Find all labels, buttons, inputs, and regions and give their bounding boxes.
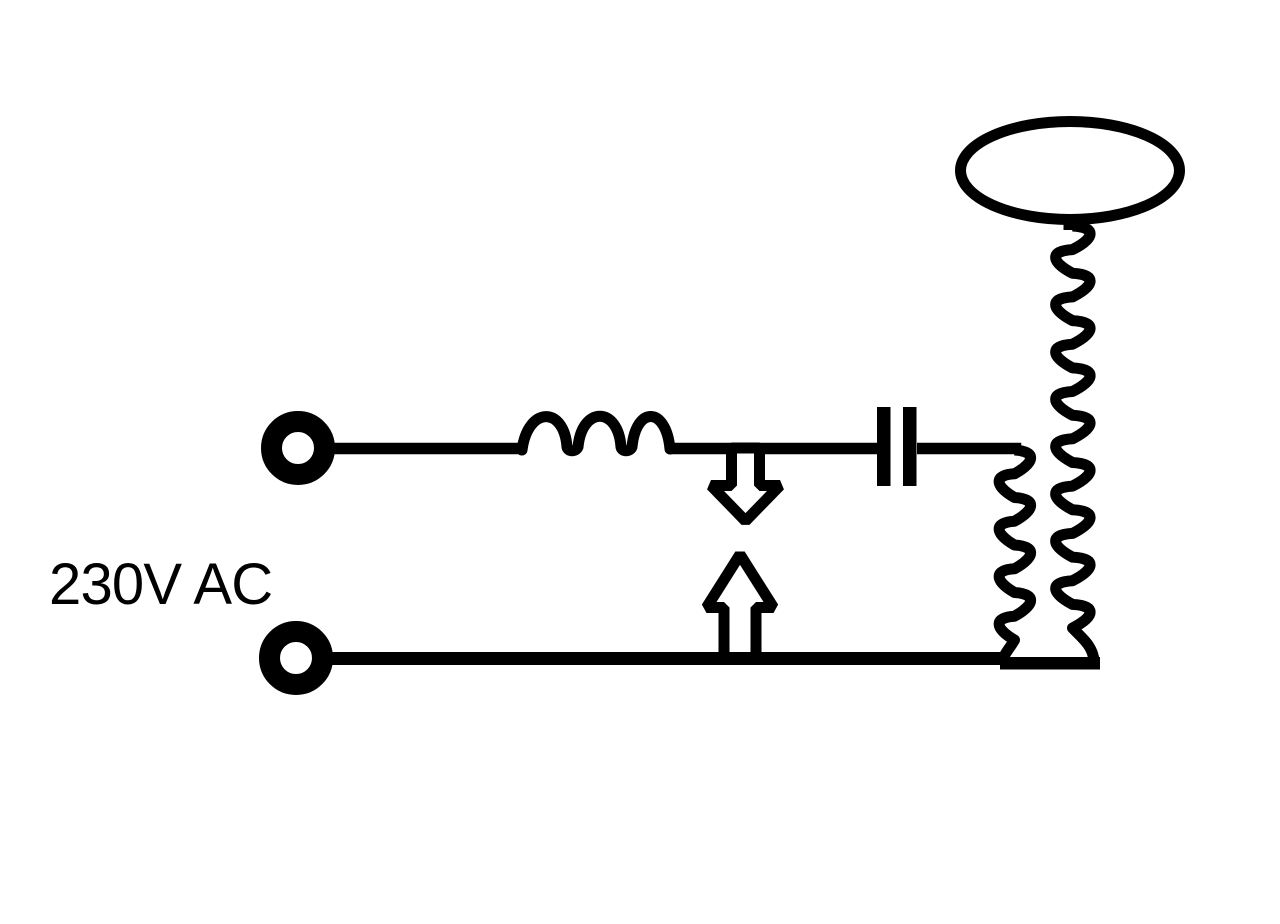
- capacitor C1 right plate: [903, 407, 917, 486]
- wire top from capacitor to primary coil: [917, 449, 1016, 453]
- svg-text:230V AC: 230V AC: [49, 552, 272, 617]
- wire toroid to secondary: [1064, 218, 1075, 230]
- toroid topload: [961, 122, 1180, 220]
- capacitor C1 left plate: [877, 407, 891, 486]
- secondary coil L2: [1056, 226, 1094, 661]
- spark gap down arrow: [711, 448, 780, 521]
- wire bottom thick bar under coils: [1000, 657, 1100, 670]
- resistor R1 (ballast): [522, 416, 670, 451]
- wire top from terminal to resistor: [330, 443, 524, 455]
- terminal top (line input): [272, 422, 325, 475]
- wire bottom: [330, 652, 1005, 665]
- spark gap up arrow: [707, 555, 774, 660]
- primary coil L1: [999, 450, 1031, 661]
- terminal bottom (neutral input): [270, 632, 323, 685]
- wire top from resistor to capacitor: [670, 443, 878, 455]
